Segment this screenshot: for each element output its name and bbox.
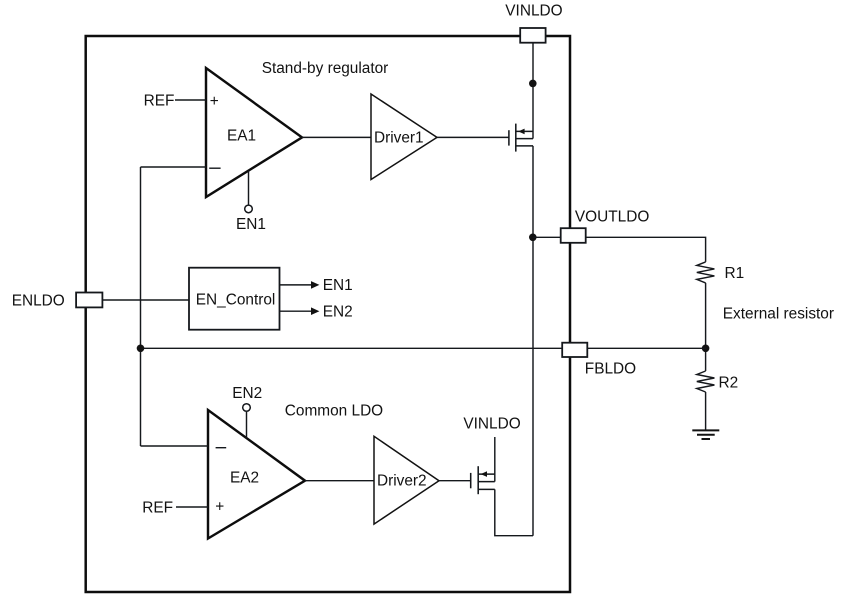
transistor M2 (PMOS pass device, common LDO) [471,466,495,494]
wire FBLDO pin to FB node [587,347,705,349]
wire feedback vertical [140,167,142,446]
wire VOUTLDO pin to R1 [586,237,706,262]
wire Driver1 to M1 gate [437,136,509,138]
resistor R1 [697,262,715,283]
ground [692,430,719,439]
M1 body segment [516,138,533,140]
M2 source arrow [481,471,487,477]
wire VINLDO pin down to M1 source [532,43,534,139]
svg-text:Stand-by regulator: Stand-by regulator [262,60,389,77]
svg-text:+: + [210,93,219,110]
svg-text:EN2: EN2 [232,385,262,402]
M2 body segment [478,481,495,483]
wire EN2 stub [246,412,248,438]
M1 source arrow [518,129,524,135]
EN1 pin circle [245,205,253,213]
resistor R2 [697,371,715,392]
svg-text:VINLDO: VINLDO [463,415,520,432]
svg-text:EA1: EA1 [227,128,256,145]
node VINLDO junction dot [529,80,537,88]
wire M2 drain to output rail [495,489,533,535]
M1 source segment [516,130,533,132]
wire feedback left of FBLDO pin [141,347,563,349]
svg-text:R2: R2 [719,375,739,392]
wire VINLDO stub to M2 source [494,437,496,482]
wire REF to EA2 plus [176,506,208,508]
buffer Driver1 [371,94,437,180]
svg-text:VOUTLDO: VOUTLDO [575,209,649,226]
pin VOUTLDO [561,228,586,243]
svg-text:EA2: EA2 [230,470,259,487]
wire EA1 minus input [141,166,207,168]
EN2 pin circle [243,404,251,412]
op-amp EA2 [208,410,305,539]
M2 channel plate [477,466,479,494]
wire EA2 minus input [141,445,209,447]
svg-text:Common LDO: Common LDO [285,403,383,420]
wire EN1 output arrow [280,284,314,286]
wire REF to EA1 plus [175,99,206,101]
svg-text:R1: R1 [725,265,745,282]
IC boundary box [86,36,570,592]
wire EA1 output [302,136,371,138]
M1 channel plate [515,124,517,152]
svg-text:VINLDO: VINLDO [505,2,562,19]
svg-text:REF: REF [144,92,175,109]
M1 gate plate [508,130,510,145]
wire EN2 output arrow [280,310,314,312]
svg-text:+: + [215,499,224,516]
M2 gate plate [470,473,472,488]
wire R1 to R2 [705,283,707,371]
pin FBLDO [562,343,587,357]
svg-text:REF: REF [142,499,173,516]
node VOUTLDO junction dot [529,234,537,242]
pin VINLDO (top) [520,28,545,43]
svg-text:Driver2: Driver2 [377,473,427,490]
wire ENLDO to EN_Control [102,299,189,301]
svg-text:EN1: EN1 [236,216,266,233]
wire output dot to VOUTLDO pin [533,236,561,238]
buffer Driver2 [374,436,439,524]
svg-text:External resistor: External resistor [723,305,834,322]
svg-text:EN1: EN1 [323,277,353,294]
wire EA2 output [305,480,374,482]
EA1 minus pin [209,167,220,169]
svg-text:ENLDO: ENLDO [12,292,65,309]
node FB junction dot [702,345,710,353]
wire R2 to ground [705,392,707,430]
pin ENLDO [76,293,102,308]
M2 source segment [478,473,495,475]
wire EN1 stub [248,171,250,205]
block EN_Control [189,268,280,330]
M2 drain segment [478,488,495,490]
svg-text:FBLDO: FBLDO [585,361,636,378]
svg-text:EN2: EN2 [323,303,353,320]
op-amp EA1 [206,68,302,197]
M1 drain segment [516,145,533,147]
wire M1 drain down to output rail [532,146,534,536]
wire Driver2 to M2 gate [439,480,471,482]
EA2 minus pin [216,447,227,449]
svg-text:Driver1: Driver1 [374,129,424,146]
node feedback junction dot [137,345,145,353]
transistor M1 (PMOS pass device, stand-by) [509,124,533,152]
svg-text:EN_Control: EN_Control [196,291,276,308]
